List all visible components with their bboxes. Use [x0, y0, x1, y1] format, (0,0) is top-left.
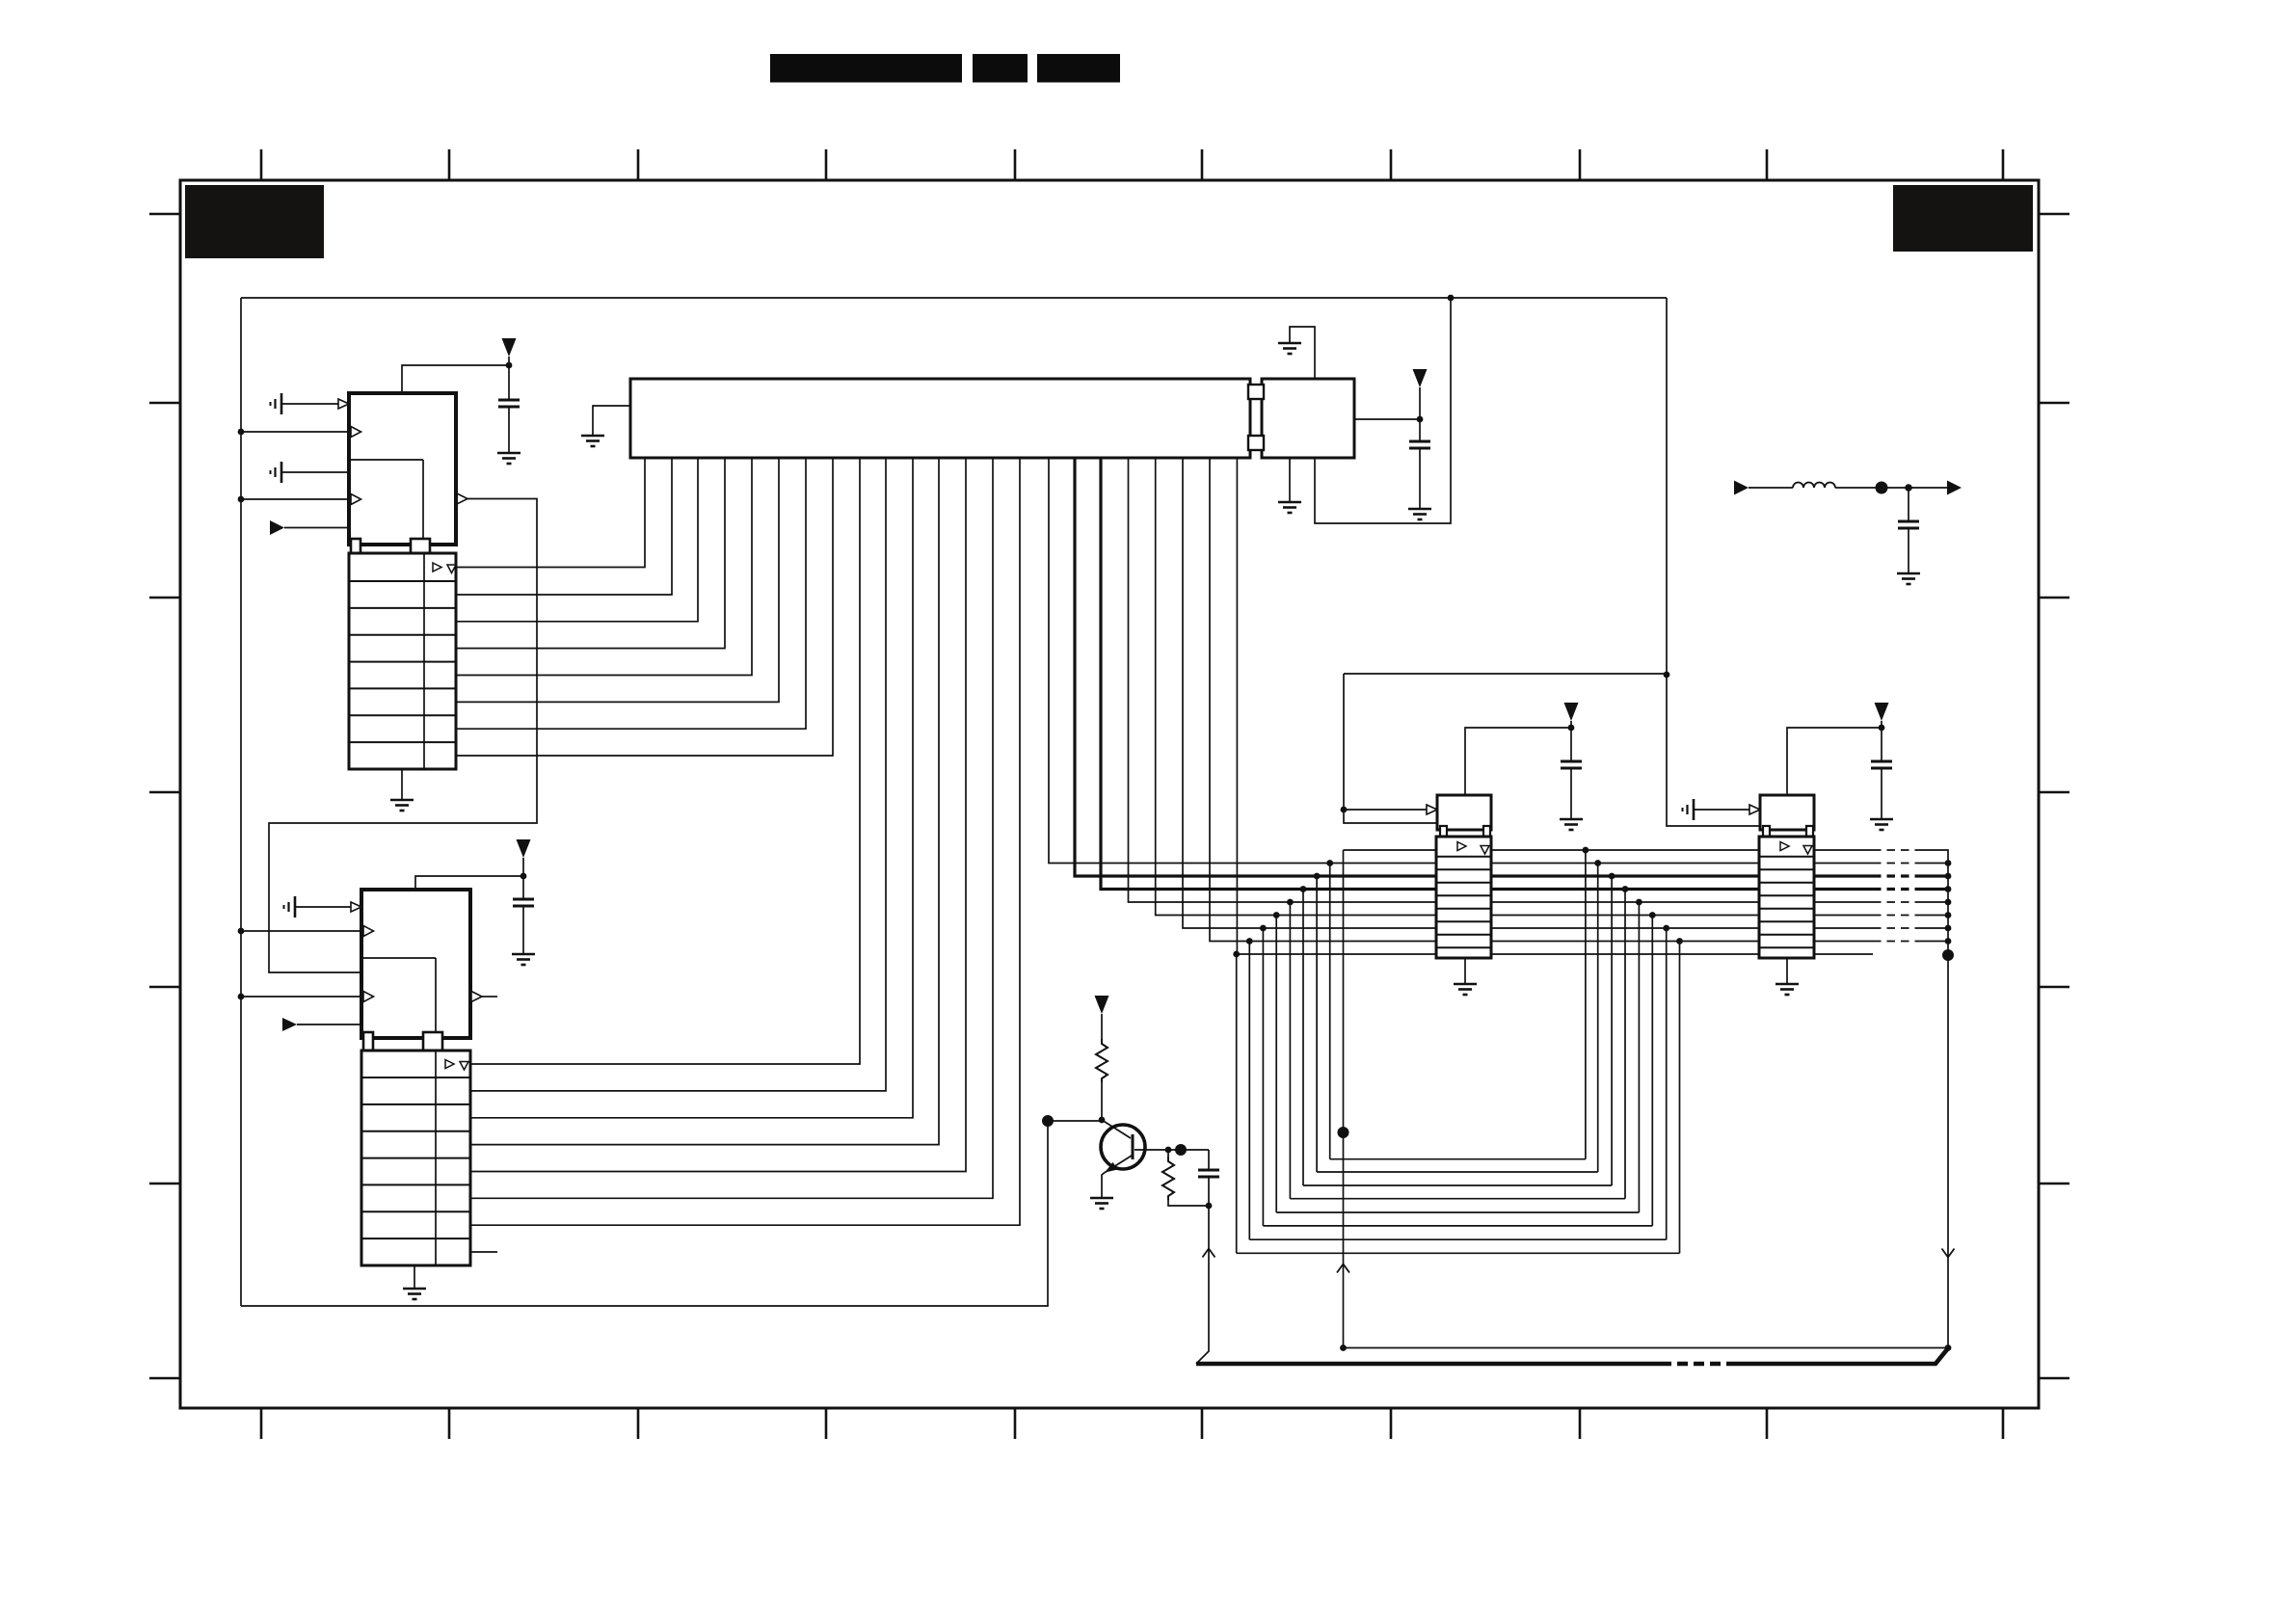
ground (U3A top) [1278, 343, 1301, 354]
wire: U3A bottom pin [1289, 458, 1291, 502]
node: collector test point [1042, 1115, 1054, 1127]
IC U4 [1437, 795, 1491, 838]
wire: collector node link [1048, 1120, 1102, 1122]
wire: U1 supply pin [402, 362, 512, 393]
input symbol U1 pin3 [271, 462, 282, 483]
wire: Q1 base node [1135, 1144, 1209, 1156]
IC U2 ladder [361, 1051, 470, 1265]
wire: U2 pin1 [295, 902, 361, 912]
IC U3A connector [1248, 379, 1354, 458]
wire: U1 pin2 from left rail [238, 427, 361, 438]
ground (U3 left pin) [581, 436, 604, 446]
wire: left crossover drop 1 [1326, 860, 1333, 1159]
wire: U2 row8 stub [470, 1251, 497, 1253]
wire: U1 ladder ground stub [401, 769, 403, 800]
IC U2 [361, 890, 470, 1052]
wire: bus line 6 [1156, 458, 1948, 916]
wire: U4 supply pin [1465, 725, 1574, 795]
capacitor C6 [1198, 1150, 1219, 1206]
wire: bus line 1 [1344, 850, 1949, 1348]
wire: right crossover riser 7 [1663, 925, 1669, 1240]
wire: U2 supply pin [415, 873, 526, 890]
signal input arrow U2 pin5 [282, 1018, 361, 1031]
power VCC U1 [502, 338, 517, 365]
wire: left crossover drop 8 [1233, 951, 1240, 1254]
wire: bottom return line [1344, 1249, 1955, 1351]
wire: left crossover drop 6 [1260, 925, 1267, 1226]
wire: U1 output rows to bus connector pins 1-8 [456, 458, 833, 756]
wire: U2 right pin stub [471, 992, 497, 1002]
wire: U1 right pin loop to U2 pin [269, 493, 537, 972]
wire: bus line 2 [1049, 458, 1948, 864]
ground (C3) [1408, 509, 1431, 519]
wire: net left rail from top line down [240, 298, 242, 1306]
wire: left crossover drop 5 [1273, 912, 1280, 1212]
wire: U2 pin2 from left rail [238, 926, 374, 937]
wire: bus line 5 [1129, 458, 1949, 902]
wire: bus line 4 (bold) [1101, 458, 1948, 890]
wire: left crossover drop 7 [1246, 938, 1253, 1239]
wire: crossover link 2 [1317, 1171, 1598, 1173]
wire: U4 ladder ground stub [1464, 958, 1466, 984]
wire: U1 pin3 [281, 471, 349, 473]
wire: right drop to U5 lower pin [1667, 298, 1760, 826]
ground (U4 ladder) [1454, 984, 1477, 995]
power VCC U2 [517, 839, 531, 876]
wire: U5 clock pin [1694, 805, 1760, 814]
inductor L1 [1793, 483, 1835, 489]
capacitor C5 [1871, 728, 1892, 819]
wire: crossover link 7 [1249, 1238, 1666, 1240]
wire: U2 ladder ground stub [414, 1265, 415, 1289]
wire: crossover link 3 [1303, 1184, 1612, 1186]
wire: crossover link 8 [1237, 1252, 1680, 1254]
wire: U2 output rows to bus connector pins 9-15 [470, 458, 1020, 1225]
capacitor C7 [1898, 488, 1919, 573]
input symbol U1 pin1 [271, 393, 282, 414]
wire: inductor input [1749, 487, 1793, 489]
power VCC U3A [1413, 369, 1428, 419]
ground (C1) [497, 453, 521, 464]
wire: U3A right pin [1354, 416, 1423, 423]
wire: inductor output [1835, 482, 1947, 494]
wire: right crossover riser 6 [1649, 912, 1656, 1226]
wire: bottom bus (bold) [1196, 1348, 1948, 1364]
wire: crossover link 6 [1263, 1225, 1652, 1227]
ground (U2 ladder) [403, 1289, 426, 1299]
wire: U4 clock pin [1344, 805, 1437, 814]
ground (U1 ladder) [390, 800, 414, 811]
wire: right crossover riser 2 [1594, 860, 1601, 1172]
wire: right crossover riser 3 [1609, 873, 1615, 1185]
wire: bus line 9 [1237, 458, 1873, 954]
node: bus right-end junction dots [1945, 860, 1952, 945]
input symbol U5 clock [1683, 799, 1695, 820]
wire: U1 pin1 [281, 399, 349, 409]
ground (U3A bottom) [1278, 502, 1301, 513]
wire: U1 pin4 from left rail [238, 494, 361, 505]
wire: crossover link 5 [1276, 1211, 1639, 1213]
wire: U3A feed from top net [1315, 298, 1451, 523]
transistor Q1 [1101, 1120, 1145, 1198]
wire: right crossover riser 4 [1622, 886, 1629, 1199]
ground (C5) [1870, 819, 1893, 830]
capacitor C3 [1409, 419, 1430, 509]
power VCC Q1 [1095, 996, 1109, 1014]
wire: right crossover riser 5 [1636, 899, 1642, 1212]
wire: bus line 7 [1183, 458, 1948, 928]
ground (U5 ladder) [1775, 984, 1799, 995]
IC U5 ladder [1759, 837, 1814, 958]
ground (C4) [1560, 819, 1583, 830]
signal arrow (inductor in) [1734, 481, 1749, 495]
wire: drive line down to bus [1196, 1206, 1215, 1364]
wire: bottom rail to transistor collector node [241, 1121, 1048, 1306]
resistor R2 [1162, 1150, 1209, 1206]
wire: right crossover riser 1 [1583, 847, 1589, 1159]
wire: bus line 3 (bold) [1075, 458, 1948, 876]
node: junction top line / U3A feed [1448, 295, 1455, 302]
signal arrow (inductor out) [1947, 481, 1962, 495]
node: R2/C6 junction [1206, 1203, 1213, 1210]
wire: U4 clock feed [1341, 674, 1667, 823]
ground (C2) [512, 954, 535, 965]
signal input arrow U1 pin5 [270, 520, 349, 535]
IC U3 bus buffer [630, 379, 1250, 458]
wire: U5 supply pin [1787, 725, 1884, 795]
wire: top horizontal net [241, 297, 1667, 299]
IC U1 [349, 393, 456, 555]
ground (C7) [1897, 573, 1920, 584]
IC U4 ladder [1436, 837, 1491, 958]
wire: crossover link 4 [1290, 1198, 1625, 1200]
wire: right crossover riser 8 [1676, 938, 1683, 1253]
IC U1 ladder [349, 553, 456, 769]
capacitor C1 [498, 365, 520, 453]
power VCC U5 [1875, 703, 1889, 728]
wire: crossover link 1 [1330, 1158, 1586, 1160]
wire: bus line 8 [1210, 458, 1948, 942]
node: bus right-end test point [1942, 949, 1954, 961]
wire: U5 ladder ground stub [1786, 958, 1788, 984]
capacitor C2 [513, 876, 534, 954]
wire: U3 left pin [593, 406, 630, 436]
ground (Q1 emitter) [1090, 1198, 1113, 1209]
wire: left crossover drop 2 [1314, 873, 1321, 1172]
wire: left crossover drop 3 [1300, 886, 1307, 1185]
resistor R1 [1096, 1014, 1108, 1120]
power VCC U4 [1564, 703, 1579, 728]
wire: U2 pin4 from left rail [238, 992, 374, 1002]
wire: loop return vertical [1337, 850, 1349, 1351]
input symbol U2 pin1 [284, 896, 296, 918]
wire: left crossover drop 4 [1287, 899, 1294, 1199]
capacitor C4 [1561, 728, 1582, 819]
node: R1/Q1 collector [1099, 1117, 1106, 1124]
wire: U3A top pin [1290, 327, 1315, 379]
node: junction right drop / U4 clock branch [1664, 672, 1670, 678]
IC U5 [1760, 795, 1814, 838]
